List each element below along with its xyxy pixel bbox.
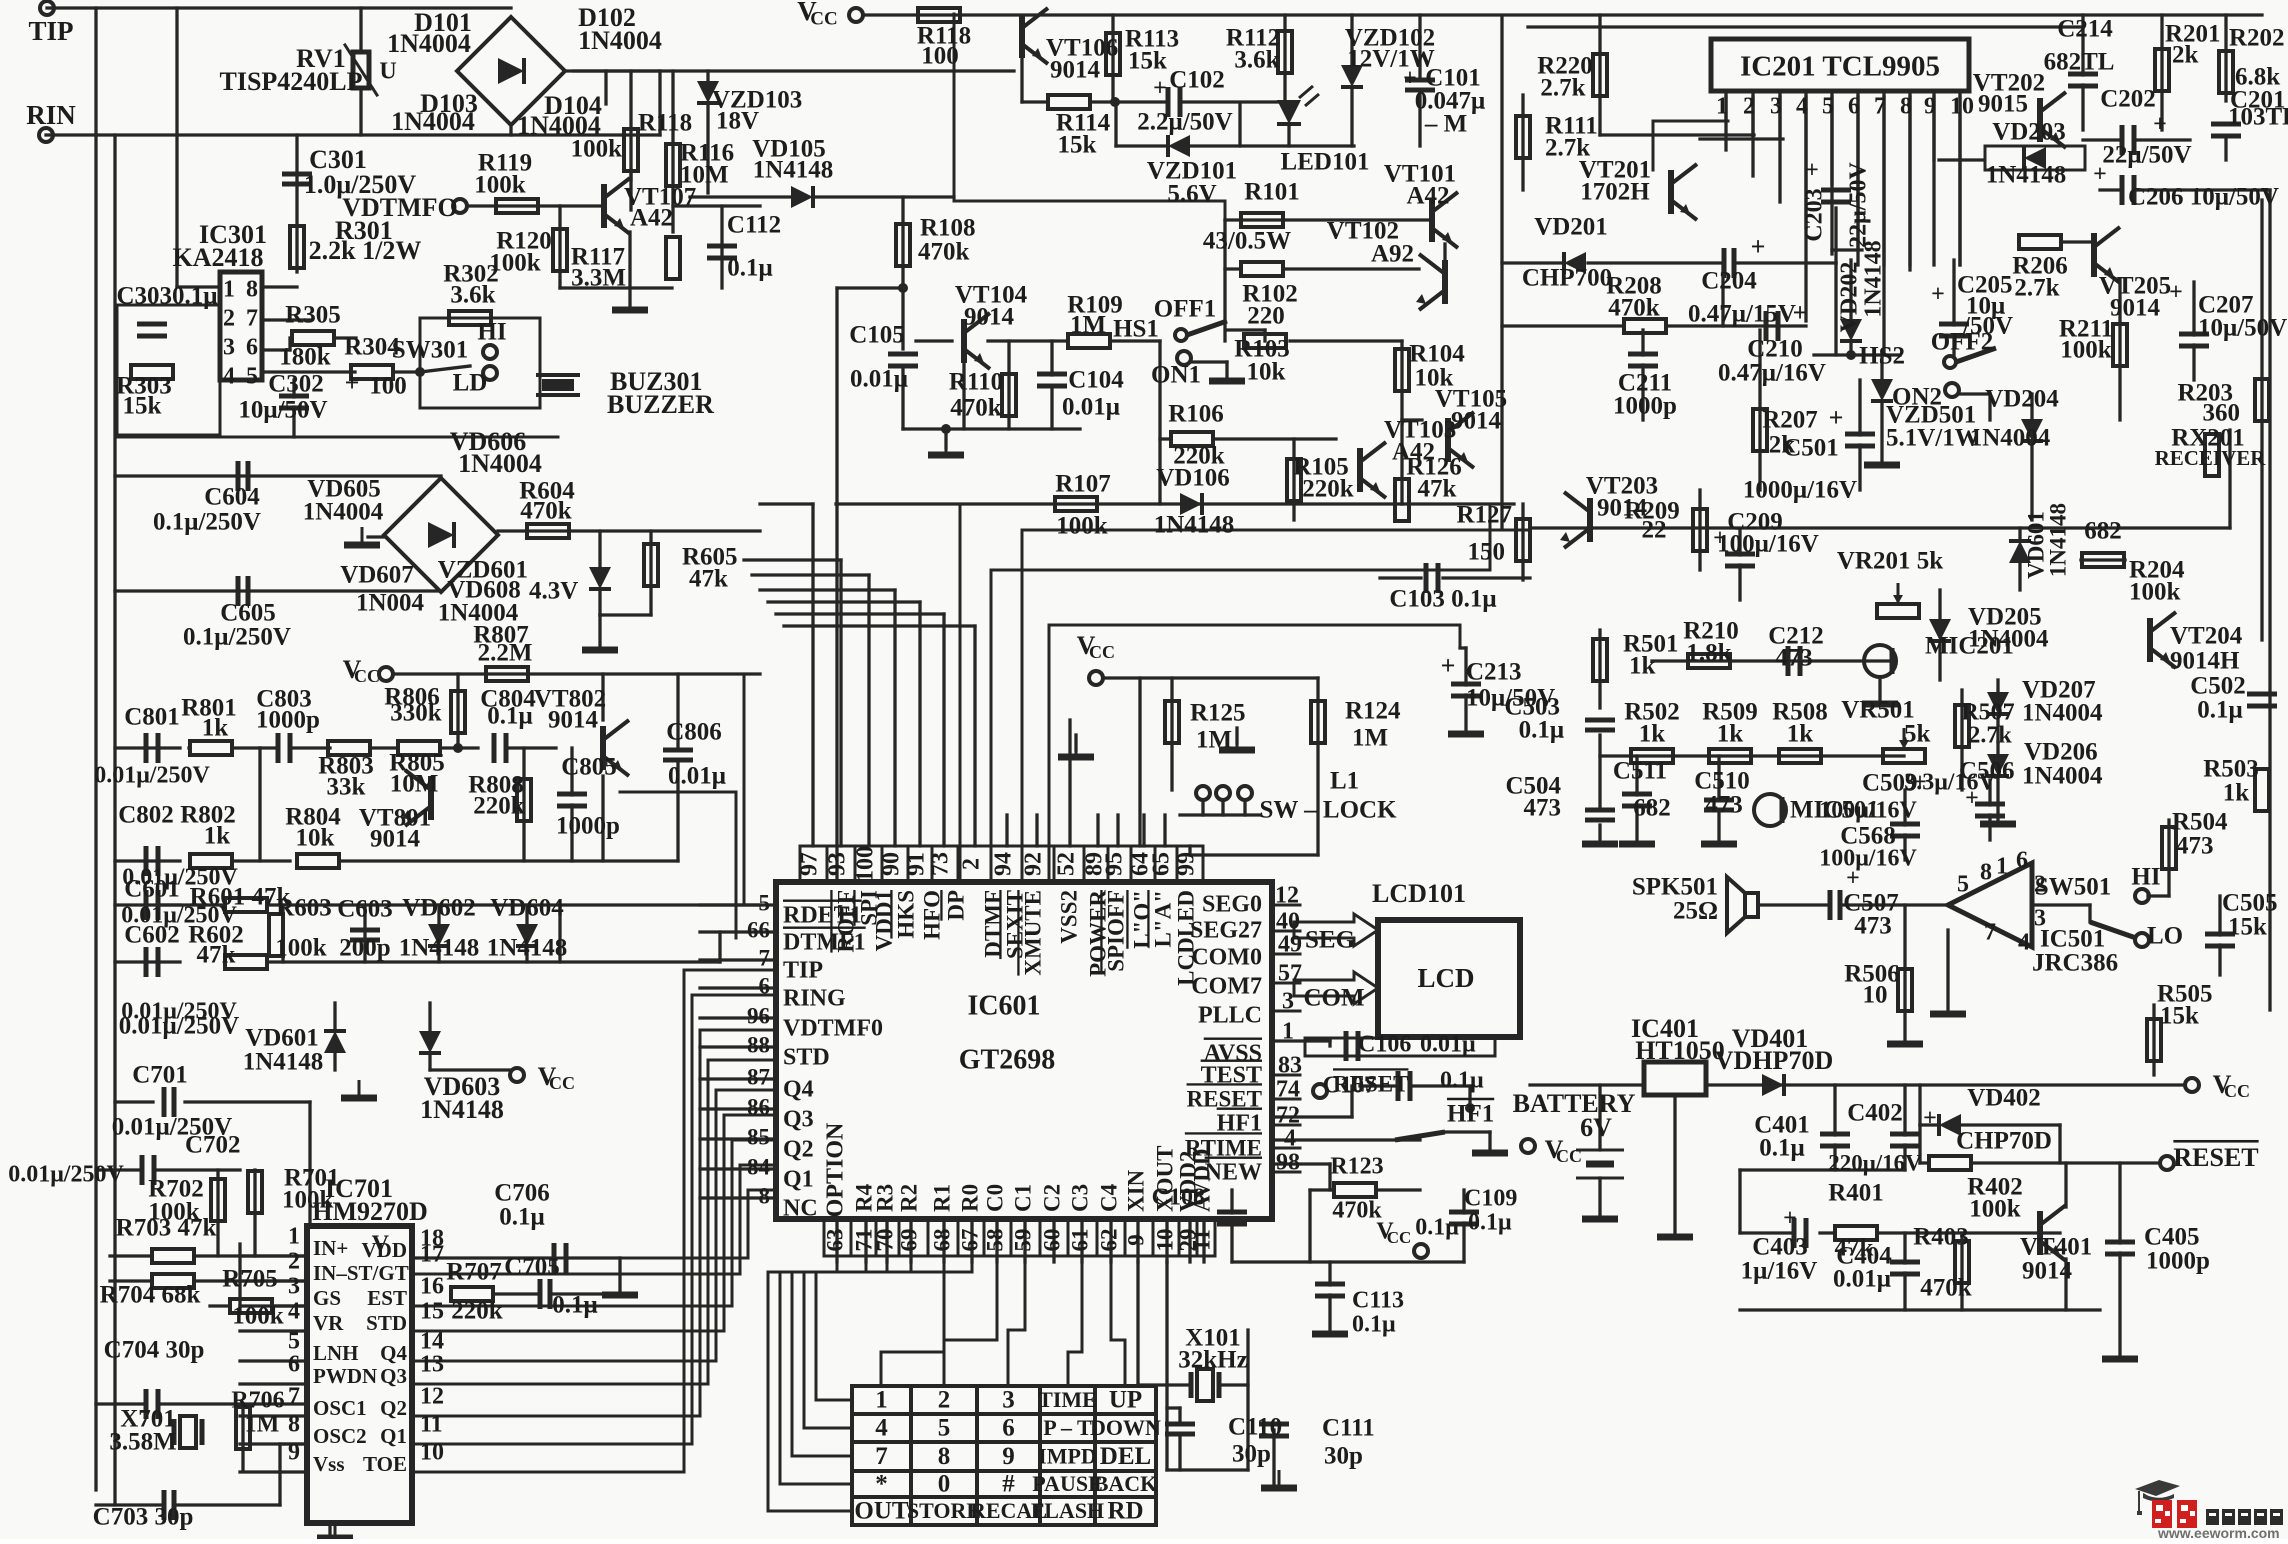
svg-text:BACK: BACK: [1094, 1471, 1158, 1496]
svg-text:30p: 30p: [1232, 1441, 1271, 1468]
svg-text:C402: C402: [1847, 1100, 1903, 1127]
svg-text:+: +: [1846, 866, 1860, 892]
svg-text:15k: 15k: [2228, 914, 2267, 941]
svg-text:A42: A42: [1406, 183, 1449, 210]
svg-text:C3: C3: [1067, 1184, 1092, 1212]
svg-text:C105: C105: [849, 322, 905, 349]
svg-text:LCD: LCD: [1417, 963, 1474, 993]
svg-text:47k: 47k: [689, 566, 728, 593]
svg-text:74: 74: [1276, 1077, 1300, 1103]
svg-text:C210: C210: [1747, 336, 1803, 363]
svg-text:RESET: RESET: [2173, 1143, 2258, 1172]
svg-text:100k: 100k: [275, 935, 327, 962]
svg-text:5.6V: 5.6V: [1167, 181, 1216, 208]
svg-text:17: 17: [420, 1242, 444, 1268]
svg-text:1N4004: 1N4004: [2022, 700, 2103, 727]
svg-text:4.3V: 4.3V: [529, 578, 578, 605]
svg-text:CC: CC: [549, 1073, 575, 1093]
svg-text:1N4148: 1N4148: [243, 1049, 324, 1076]
svg-text:100k: 100k: [1056, 513, 1108, 540]
svg-text:100k: 100k: [2129, 579, 2181, 606]
svg-text:C603: C603: [337, 896, 393, 923]
svg-text:1k: 1k: [204, 823, 231, 850]
svg-text:100k: 100k: [1969, 1196, 2021, 1223]
svg-text:220k: 220k: [451, 1298, 503, 1325]
svg-text:CC: CC: [1556, 1146, 1582, 1166]
svg-text:COM: COM: [1303, 985, 1364, 1012]
svg-text:Vss: Vss: [313, 1452, 345, 1476]
svg-text:A92: A92: [1371, 241, 1414, 268]
svg-text:1N4148: 1N4148: [1154, 512, 1235, 539]
svg-text:1M: 1M: [1070, 312, 1106, 339]
svg-text:4: 4: [1284, 1126, 1296, 1152]
svg-text:OSC1: OSC1: [313, 1396, 367, 1420]
svg-text:10μ/50V: 10μ/50V: [2198, 315, 2287, 342]
svg-text:HT1050: HT1050: [1635, 1036, 1725, 1065]
svg-text:*: *: [875, 1471, 888, 1498]
svg-text:47k: 47k: [1418, 476, 1457, 503]
svg-text:CC: CC: [1387, 1228, 1412, 1247]
svg-text:220k: 220k: [1302, 476, 1354, 503]
svg-text:1μ/16V: 1μ/16V: [1741, 1258, 1818, 1285]
svg-text:2.7k: 2.7k: [2014, 275, 2059, 302]
svg-text:1000p: 1000p: [2146, 1248, 2210, 1275]
svg-text:DTMF1: DTMF1: [783, 930, 866, 956]
svg-text:2: 2: [288, 1249, 300, 1275]
svg-text:XMUTE: XMUTE: [1020, 890, 1045, 976]
svg-text:4: 4: [1796, 94, 1808, 120]
svg-text:473: 473: [1705, 792, 1743, 819]
svg-text:18V: 18V: [716, 108, 759, 135]
svg-text:100μ/16V: 100μ/16V: [1819, 846, 1917, 872]
svg-text:4: 4: [223, 364, 235, 390]
svg-text:Q4: Q4: [783, 1077, 814, 1103]
svg-text:0.01μ: 0.01μ: [1833, 1266, 1891, 1293]
svg-text:1k: 1k: [202, 715, 229, 742]
svg-text:49: 49: [1278, 932, 1302, 958]
svg-text:Q2: Q2: [783, 1137, 814, 1163]
svg-text:1N4148: 1N4148: [487, 935, 568, 962]
svg-text:52: 52: [1054, 852, 1080, 876]
svg-text:LNH: LNH: [313, 1341, 359, 1365]
svg-text:5.1V/1W: 5.1V/1W: [1886, 425, 1980, 452]
svg-text:0.47μ/15V: 0.47μ/15V: [1688, 301, 1796, 328]
svg-text:R107: R107: [1055, 471, 1111, 498]
svg-text:0.1μ: 0.1μ: [487, 703, 532, 730]
svg-text:0.1μ: 0.1μ: [1759, 1135, 1804, 1162]
svg-text:0.1μ: 0.1μ: [1352, 1312, 1396, 1338]
svg-text:73: 73: [928, 852, 954, 876]
svg-text:61: 61: [1067, 1229, 1092, 1252]
svg-text:9: 9: [1002, 1443, 1015, 1470]
svg-text:0.01μ: 0.01μ: [1420, 1032, 1476, 1058]
svg-text:R603: R603: [276, 895, 332, 922]
svg-text:C204: C204: [1701, 268, 1757, 295]
svg-text:100: 100: [369, 373, 407, 400]
svg-text:100k: 100k: [571, 136, 623, 163]
svg-text:C206 10μ/50V: C206 10μ/50V: [2128, 184, 2279, 211]
svg-text:R124: R124: [1345, 698, 1401, 725]
svg-text:OSC2: OSC2: [313, 1424, 367, 1448]
svg-text:VD106: VD106: [1156, 465, 1230, 492]
svg-text:+: +: [1713, 526, 1727, 552]
svg-text:2.2μ/50V: 2.2μ/50V: [1137, 109, 1232, 136]
svg-text:C4: C4: [1096, 1183, 1121, 1212]
svg-text:100k: 100k: [282, 1187, 334, 1214]
svg-text:COM7: COM7: [1191, 974, 1262, 1000]
svg-text:22μ/50V: 22μ/50V: [2102, 142, 2191, 169]
svg-text:1: 1: [223, 277, 235, 303]
svg-text:62: 62: [1096, 1229, 1121, 1252]
svg-text:+: +: [1793, 298, 1808, 327]
svg-text:C705: C705: [504, 1254, 560, 1281]
svg-text:R3: R3: [872, 1184, 897, 1212]
svg-text:IC501: IC501: [2040, 926, 2105, 953]
svg-text:VD201: VD201: [1534, 214, 1608, 241]
svg-text:30p: 30p: [1324, 1443, 1363, 1470]
svg-text:STD: STD: [783, 1045, 830, 1071]
svg-text:CHP700: CHP700: [1522, 265, 1612, 292]
svg-text:60: 60: [1039, 1229, 1064, 1252]
svg-text:1M: 1M: [1196, 727, 1232, 754]
svg-text:C602: C602: [124, 922, 180, 949]
svg-text:+: +: [1965, 786, 1979, 812]
svg-text:C505: C505: [2222, 890, 2278, 917]
svg-text:2.7k: 2.7k: [1968, 723, 2012, 749]
svg-text:1000p: 1000p: [556, 813, 620, 840]
svg-text:C605: C605: [220, 600, 276, 627]
svg-text:65: 65: [1149, 852, 1175, 876]
svg-text:C502: C502: [2190, 673, 2246, 700]
svg-text:DEL: DEL: [1100, 1443, 1151, 1470]
svg-text:Q2: Q2: [380, 1396, 407, 1420]
svg-text:SEG27: SEG27: [1190, 918, 1262, 944]
svg-text:47k: 47k: [197, 942, 236, 969]
svg-text:1702H: 1702H: [1580, 179, 1650, 206]
svg-text:1N4148: 1N4148: [420, 1095, 504, 1124]
svg-text:SW – LOCK: SW – LOCK: [1259, 797, 1397, 824]
svg-text:TIME: TIME: [1038, 1387, 1097, 1412]
svg-text:PLLC: PLLC: [1198, 1003, 1262, 1029]
svg-text:0.1μ/250V: 0.1μ/250V: [183, 624, 291, 651]
svg-text:R207: R207: [1762, 407, 1818, 434]
svg-text:100k: 100k: [232, 1303, 284, 1330]
svg-text:C506: C506: [1959, 758, 2015, 785]
svg-text:1N4004: 1N4004: [391, 107, 475, 136]
svg-text:C113: C113: [1352, 1288, 1404, 1314]
svg-text:8: 8: [759, 1183, 771, 1208]
svg-text:0.01μ/250V: 0.01μ/250V: [8, 1162, 124, 1188]
svg-text:470k: 470k: [950, 395, 1002, 422]
svg-text:U: U: [379, 59, 396, 85]
svg-text:69: 69: [896, 1229, 921, 1252]
svg-text:C403: C403: [1752, 1234, 1808, 1261]
svg-text:1: 1: [1996, 854, 2008, 880]
svg-text:200p: 200p: [339, 935, 390, 962]
svg-text:R0: R0: [957, 1184, 982, 1212]
svg-text:3: 3: [1770, 94, 1782, 120]
svg-text:R2: R2: [896, 1184, 921, 1212]
svg-text:3.3M: 3.3M: [571, 265, 626, 292]
svg-text:0.01μ/250V: 0.01μ/250V: [121, 999, 237, 1025]
svg-text:C3030.1μ: C3030.1μ: [117, 283, 218, 310]
svg-text:R403: R403: [1913, 1224, 1969, 1251]
svg-text:VD402: VD402: [1967, 1085, 2041, 1112]
svg-text:7: 7: [246, 306, 258, 332]
svg-text:DOWN: DOWN: [1090, 1415, 1161, 1440]
svg-text:SEG: SEG: [1305, 927, 1355, 954]
svg-text:VT401: VT401: [2020, 1234, 2092, 1261]
svg-text:C405: C405: [2144, 1224, 2200, 1251]
svg-text:1: 1: [1716, 94, 1728, 120]
svg-text:9014: 9014: [2110, 295, 2161, 322]
svg-text:+: +: [1923, 1106, 1937, 1132]
svg-text:C202: C202: [2100, 86, 2156, 113]
svg-text:95: 95: [1102, 852, 1128, 876]
svg-text:OUT: OUT: [854, 1498, 909, 1525]
svg-text:470k: 470k: [520, 498, 572, 525]
svg-text:15k: 15k: [1058, 132, 1097, 159]
svg-text:VD203: VD203: [1992, 119, 2066, 146]
svg-text:10k: 10k: [296, 825, 335, 852]
svg-text:C702: C702: [185, 1132, 241, 1159]
svg-text:470k: 470k: [1608, 295, 1660, 322]
svg-text:SW301: SW301: [392, 337, 468, 364]
svg-text:– M: – M: [1424, 111, 1467, 138]
svg-text:IN–ST/GT: IN–ST/GT: [313, 1261, 409, 1285]
svg-text:CC: CC: [1089, 642, 1115, 662]
svg-text:59: 59: [1010, 1229, 1035, 1252]
svg-text:NEW: NEW: [1205, 1160, 1262, 1186]
svg-text:TOE: TOE: [363, 1452, 407, 1476]
svg-text:15k: 15k: [1128, 48, 1167, 75]
svg-text:L1: L1: [1330, 768, 1359, 795]
svg-text:5: 5: [1957, 872, 1969, 898]
svg-text:1N4148: 1N4148: [2045, 503, 2070, 577]
svg-text:3: 3: [223, 335, 235, 361]
svg-text:CC: CC: [354, 666, 380, 686]
svg-text:63: 63: [822, 1229, 847, 1252]
svg-text:R101: R101: [1244, 179, 1300, 206]
svg-text:0.01μ: 0.01μ: [1062, 394, 1120, 421]
svg-text:1N4004: 1N4004: [387, 29, 471, 58]
svg-text:0.1μ: 0.1μ: [499, 1204, 544, 1231]
svg-text:HF1: HF1: [1217, 1111, 1262, 1137]
svg-text:GS: GS: [313, 1286, 341, 1310]
svg-text:C501: C501: [1783, 435, 1839, 462]
svg-text:V: V: [372, 1232, 390, 1258]
svg-text:6: 6: [2016, 848, 2028, 874]
svg-text:+: +: [2093, 162, 2107, 188]
svg-text:SPK501: SPK501: [1632, 874, 1718, 901]
svg-text:1N4148: 1N4148: [1861, 240, 1887, 317]
svg-text:UP: UP: [1109, 1387, 1142, 1414]
svg-text:9014: 9014: [1050, 57, 1101, 84]
svg-text:R118: R118: [638, 110, 692, 137]
svg-text:C704 30p: C704 30p: [104, 1337, 205, 1364]
svg-text:HFO: HFO: [919, 890, 944, 940]
svg-text:11: 11: [1189, 1229, 1214, 1251]
svg-text:57: 57: [1278, 961, 1302, 987]
svg-text:1k: 1k: [1717, 721, 1744, 748]
svg-text:OFF1: OFF1: [1154, 296, 1217, 323]
svg-text:9: 9: [1924, 94, 1936, 120]
svg-text:R705: R705: [222, 1266, 278, 1293]
svg-text:1k: 1k: [1629, 653, 1656, 680]
svg-text:VD202: VD202: [1837, 262, 1863, 333]
svg-text:LD: LD: [453, 370, 488, 397]
svg-text:XIN: XIN: [1123, 1169, 1148, 1212]
svg-text:3.6k: 3.6k: [450, 282, 495, 309]
svg-text:12: 12: [420, 1384, 444, 1410]
svg-text:0.1μ: 0.1μ: [727, 255, 772, 282]
svg-text:1N4148: 1N4148: [1986, 162, 2067, 189]
svg-text:100μ/16V: 100μ/16V: [1819, 798, 1917, 824]
svg-text:8: 8: [1980, 860, 1992, 886]
svg-text:6: 6: [1002, 1415, 1015, 1442]
svg-text:15k: 15k: [2160, 1003, 2199, 1030]
svg-text:11: 11: [420, 1412, 443, 1438]
svg-text:C0: C0: [982, 1184, 1007, 1212]
svg-text:330k: 330k: [390, 700, 442, 727]
svg-text:+: +: [1829, 403, 1844, 432]
svg-text:IC201 TCL9905: IC201 TCL9905: [1740, 51, 1940, 83]
svg-text:HI: HI: [477, 319, 506, 346]
svg-text:RTIME: RTIME: [1185, 1135, 1262, 1160]
svg-text:TIP: TIP: [783, 958, 823, 984]
svg-text:VDTMF0: VDTMF0: [783, 1016, 883, 1042]
svg-text:0.1μ: 0.1μ: [1440, 1068, 1484, 1094]
svg-text:12V/1W: 12V/1W: [1347, 46, 1435, 73]
svg-text:R305: R305: [285, 302, 341, 329]
svg-text:L"A": L"A": [1150, 890, 1175, 948]
svg-text:R703 47k: R703 47k: [116, 1215, 217, 1242]
svg-text:GT2698: GT2698: [959, 1044, 1055, 1075]
svg-text:C701: C701: [132, 1062, 188, 1089]
svg-text:C108: C108: [1152, 1185, 1205, 1211]
svg-text:IMPD: IMPD: [1038, 1444, 1097, 1469]
svg-text:473: 473: [2176, 833, 2214, 860]
svg-text:R110: R110: [949, 369, 1003, 396]
svg-text:Q3: Q3: [380, 1364, 407, 1388]
svg-text:C802: C802: [118, 802, 174, 829]
svg-text:RECEIVER: RECEIVER: [2155, 446, 2267, 470]
svg-text:COM0: COM0: [1191, 945, 1262, 971]
svg-text:HS1: HS1: [1113, 316, 1159, 343]
svg-text:1: 1: [288, 1224, 300, 1250]
svg-text:+: +: [1805, 158, 1819, 184]
svg-text:0.47μ/16V: 0.47μ/16V: [1718, 360, 1826, 387]
svg-text:Q1: Q1: [783, 1167, 814, 1193]
svg-text:2: 2: [938, 1387, 951, 1414]
svg-text:TISP4240LP: TISP4240LP: [219, 67, 362, 96]
svg-text:8: 8: [246, 277, 258, 303]
svg-text:ON1: ON1: [1151, 362, 1201, 389]
svg-text:VD204: VD204: [1985, 386, 2059, 413]
svg-text:VR501: VR501: [1841, 697, 1915, 724]
svg-text:RIN: RIN: [26, 100, 76, 130]
svg-text:1000p: 1000p: [1613, 393, 1677, 420]
svg-text:470k: 470k: [918, 239, 970, 266]
svg-text:10μ/50V: 10μ/50V: [238, 397, 327, 424]
svg-text:IC601: IC601: [967, 990, 1040, 1021]
svg-text:HS2: HS2: [1859, 343, 1905, 370]
svg-text:1k: 1k: [1787, 721, 1814, 748]
svg-text:R108: R108: [920, 215, 976, 242]
svg-text:70: 70: [872, 1229, 897, 1252]
svg-text:C103 0.1μ: C103 0.1μ: [1389, 586, 1496, 613]
svg-text:C110: C110: [1228, 1414, 1282, 1441]
svg-text:94: 94: [991, 852, 1017, 876]
svg-text:C601: C601: [124, 876, 180, 903]
svg-text:+: +: [1751, 232, 1766, 261]
svg-text:VSS2: VSS2: [1056, 890, 1081, 944]
svg-text:1N4004: 1N4004: [2022, 763, 2103, 790]
svg-text:R106: R106: [1168, 401, 1224, 428]
svg-text:8: 8: [1900, 94, 1912, 120]
svg-text:13: 13: [420, 1352, 444, 1378]
svg-text:NC: NC: [783, 1196, 818, 1222]
svg-text:7: 7: [1984, 920, 1996, 946]
svg-text:4: 4: [875, 1415, 888, 1442]
svg-text:220k: 220k: [473, 793, 525, 820]
svg-text:LO: LO: [2147, 923, 2183, 950]
svg-text:7: 7: [288, 1384, 300, 1410]
svg-text:33k: 33k: [327, 774, 366, 801]
svg-text:1.8k: 1.8k: [1686, 640, 1731, 667]
svg-text:2: 2: [223, 306, 235, 332]
svg-text:0.01μ/250V: 0.01μ/250V: [94, 763, 210, 789]
svg-text:4: 4: [288, 1299, 300, 1325]
svg-text:OPTION: OPTION: [823, 1122, 849, 1217]
svg-text:VDTMFO: VDTMFO: [342, 193, 458, 222]
svg-text:87: 87: [747, 1064, 770, 1089]
svg-text:97: 97: [797, 852, 823, 876]
svg-text:R123: R123: [1330, 1154, 1383, 1180]
svg-text:CC: CC: [810, 8, 837, 29]
svg-text:+: +: [2169, 280, 2183, 306]
svg-text:CHP70D: CHP70D: [1956, 1128, 2052, 1155]
svg-text:682TL: 682TL: [2044, 49, 2115, 76]
svg-text:C104: C104: [1068, 367, 1124, 394]
svg-text:C302: C302: [268, 371, 324, 398]
svg-text:1: 1: [1282, 1019, 1294, 1045]
svg-text:9014: 9014: [2022, 1258, 2073, 1285]
svg-text:C706: C706: [494, 1180, 550, 1207]
svg-text:10k: 10k: [1247, 359, 1286, 386]
svg-text:180k: 180k: [279, 344, 331, 371]
svg-text:VD604: VD604: [490, 895, 564, 922]
svg-text:6: 6: [1848, 94, 1860, 120]
svg-text:R125: R125: [1190, 700, 1246, 727]
svg-text:+: +: [1403, 66, 1417, 92]
svg-text:Q1: Q1: [380, 1424, 407, 1448]
svg-text:3: 3: [1002, 1387, 1015, 1414]
svg-text:1N4148: 1N4148: [399, 935, 480, 962]
svg-text:Q4: Q4: [380, 1341, 407, 1365]
svg-text:VD607: VD607: [340, 562, 414, 589]
svg-text:85: 85: [747, 1124, 770, 1149]
svg-text:R127: R127: [1456, 502, 1512, 529]
svg-text:C2: C2: [1039, 1184, 1064, 1212]
svg-text:5: 5: [759, 890, 771, 915]
svg-text:470k: 470k: [1920, 1275, 1972, 1302]
svg-text:EST: EST: [367, 1286, 407, 1310]
svg-text:8: 8: [288, 1412, 300, 1438]
svg-text:10M: 10M: [390, 771, 439, 798]
svg-text:C510: C510: [1694, 768, 1750, 795]
svg-text:BUZZER: BUZZER: [607, 390, 714, 419]
